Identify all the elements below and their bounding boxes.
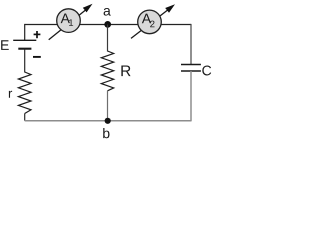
ammeter A2 label A (142, 14, 151, 24)
wire top horizontal rail (25, 24, 191, 26)
capacitor C top plate (181, 64, 201, 66)
ammeter A2 label subscript 2 (150, 21, 154, 28)
resistor r (18, 72, 31, 114)
wire r to bottom rail (24, 114, 26, 121)
ammeter A1 needle arrowhead (83, 4, 93, 13)
ammeter A1 label subscript 1 (69, 19, 73, 26)
wire right vertical to capacitor (190, 24, 192, 65)
wire bottom horizontal rail (25, 120, 192, 122)
wire node a to resistor R (107, 25, 109, 52)
ammeter A2 needle (131, 9, 169, 38)
capacitor C bottom plate (181, 70, 201, 72)
node a label (104, 8, 111, 16)
ammeter A2 body (138, 10, 162, 34)
label r (9, 91, 12, 98)
node a dot (104, 21, 111, 28)
battery E negative plate (18, 48, 31, 50)
ammeter A1 label A (61, 13, 70, 23)
node b label (103, 128, 109, 138)
resistor R (101, 51, 113, 91)
wire left vertical stub to battery (24, 24, 26, 40)
battery E positive plate (13, 39, 36, 41)
battery minus sign (33, 56, 41, 58)
battery plus sign (34, 31, 41, 38)
wire capacitor to bottom rail (190, 71, 192, 121)
ammeter A1 needle (49, 9, 87, 40)
label E (1, 40, 9, 50)
wire battery to resistor r (24, 49, 26, 73)
node b dot (105, 118, 111, 124)
ammeter A2 needle arrowhead (165, 4, 175, 13)
label R (121, 65, 130, 76)
label C (202, 66, 211, 76)
wire R to node b (107, 91, 109, 121)
ammeter A1 body (57, 9, 81, 33)
